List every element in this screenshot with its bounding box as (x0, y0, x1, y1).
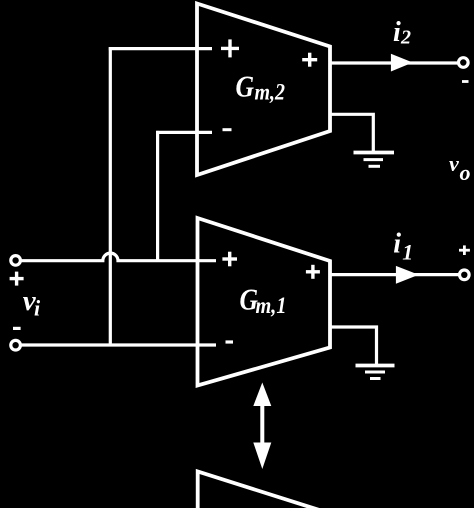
wire: U2 to ground (330, 114, 373, 152)
svg-text:m,2: m,2 (255, 80, 286, 105)
U1 noninverting input + mark (222, 252, 237, 267)
wire: U2 + input horizontal (109, 47, 212, 50)
op-amp U2 (transconductor Gm,2) body (197, 4, 330, 176)
wire: vertical from U2 + input down to inverting input bus (node B) (109, 47, 112, 345)
input terminal (-) (11, 340, 21, 350)
- polarity mark at i2 terminal (462, 80, 469, 83)
current arrow i1 (396, 266, 419, 284)
svg-text:1: 1 (402, 240, 413, 265)
input terminal (+) (11, 256, 21, 266)
U1 inverting input - mark (226, 340, 234, 343)
svg-text:i: i (393, 229, 401, 260)
- polarity mark at input (13, 327, 21, 330)
op-amp U3 (partial transconductor at bottom) (198, 472, 332, 508)
U1 output + mark (306, 265, 320, 279)
wire: vertical from U2 - input down to noninverting bus (node A) (156, 131, 159, 262)
wire: U2 - input horizontal (156, 131, 212, 134)
svg-text:i: i (34, 296, 41, 321)
current label i2 (393, 17, 411, 49)
wire: top input bus with hop over crossing wire (22, 253, 217, 261)
op-amp U1 (transconductor Gm,1) body (198, 218, 331, 386)
+ polarity mark at input (10, 272, 24, 286)
+ polarity mark at i1 terminal (459, 245, 470, 255)
svg-text:m,1: m,1 (256, 293, 287, 318)
value label Gm,1 (240, 282, 287, 319)
output terminal i2 (459, 58, 469, 68)
svg-text:i: i (393, 17, 401, 48)
current label i1 (393, 229, 413, 265)
output terminal i1 (460, 270, 470, 280)
U2 output + mark (302, 53, 317, 67)
ground (U1) (356, 366, 395, 379)
wire: U1 to ground (330, 327, 377, 365)
node label vi (23, 285, 41, 321)
U2 noninverting input + mark (221, 39, 239, 57)
current arrow i2 (391, 54, 413, 72)
wire: bottom input bus (22, 343, 217, 346)
svg-text:o: o (460, 160, 471, 185)
svg-text:G: G (236, 69, 255, 104)
node label vo (449, 151, 471, 185)
value label Gm,2 (236, 69, 286, 105)
svg-text:2: 2 (400, 27, 411, 49)
wire: U2 output (330, 61, 458, 64)
continuation arrow (double-headed) (253, 383, 271, 470)
wire: U1 output (330, 273, 459, 276)
svg-text:v: v (449, 151, 459, 176)
U2 inverting input - mark (223, 128, 232, 131)
ground (U2) (354, 153, 395, 167)
